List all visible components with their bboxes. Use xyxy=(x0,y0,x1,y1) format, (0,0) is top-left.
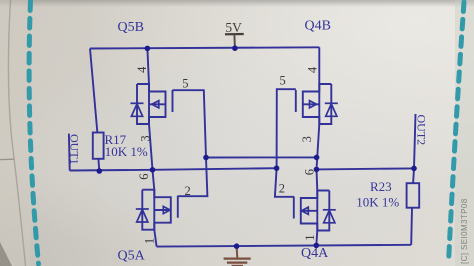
transistor Q4B bulk stub and arrow xyxy=(303,103,320,105)
ground symbol xyxy=(224,246,251,266)
selection dashed marker left xyxy=(29,1,38,264)
svg-text:1: 1 xyxy=(142,238,156,244)
svg-text:5: 5 xyxy=(182,76,188,90)
svg-text:3: 3 xyxy=(300,136,314,142)
wire: Q5B pin3 down to OUT1 wire xyxy=(149,124,153,170)
wire: R23 bottom stub to ground rail xyxy=(410,208,413,245)
transistor Q5B body diode xyxy=(131,102,144,104)
wire: Q5B drain pin 4 from rail xyxy=(147,48,149,84)
wire: bottom ground rail xyxy=(157,245,412,247)
wire: OUT1 net stub xyxy=(68,134,71,171)
transistor Q4B gate bar xyxy=(295,90,297,112)
svg-text:5V: 5V xyxy=(225,20,242,35)
svg-text:Q4B: Q4B xyxy=(305,19,331,34)
svg-text:3: 3 xyxy=(139,135,153,141)
wire: Q5A source pin 1 down xyxy=(154,230,156,247)
svg-text:4: 4 xyxy=(306,66,320,73)
wire: R23 top stub xyxy=(412,168,415,183)
wire: R17 bottom stub xyxy=(97,159,100,171)
bottom-left bezel corner shadow xyxy=(0,242,12,266)
node junction at 147.4,48.4 xyxy=(145,46,151,52)
node junction at 276.6,168.2 xyxy=(274,165,280,171)
transistor Q5A body diode xyxy=(136,208,149,210)
wire: Q4B gate pin 5 down to lower cross node xyxy=(277,89,296,168)
node junction at 236.6,246.2 xyxy=(234,243,240,249)
wire: 5V top power rail xyxy=(90,47,319,48)
transistor Q5B bulk stub and arrow xyxy=(149,103,166,105)
node junction at 316.6,157.4 xyxy=(314,155,320,161)
node junction at 316.5,169.4 xyxy=(314,167,320,173)
node junction at 152.5,169.8 xyxy=(150,167,156,173)
wire: upper cross wire OUT2 node xyxy=(206,156,317,158)
svg-text:5: 5 xyxy=(280,74,286,88)
transistor Q5B gate bar xyxy=(172,90,174,112)
svg-text:R23: R23 xyxy=(370,179,392,194)
wire: Q5A drain pin 6 xyxy=(153,170,155,190)
wire: OUT2 node horizontal to R23 xyxy=(317,168,415,169)
wire: left branch from rail down to R17 xyxy=(90,49,97,133)
wire: Q4A source pin 1 down xyxy=(316,231,317,246)
svg-text:[C] SEI0M3TP08: [C] SEI0M3TP08 xyxy=(460,198,469,264)
svg-text:4: 4 xyxy=(135,66,149,73)
background side tints xyxy=(0,0,30,266)
transistor Q5A body outline xyxy=(142,190,171,230)
svg-text:Q5A: Q5A xyxy=(118,249,146,264)
svg-text:OUT1: OUT1 xyxy=(68,134,82,165)
wire: Q4B pin3 down to Q4A pin6 xyxy=(317,124,320,191)
transistor Q5B body outline xyxy=(137,84,166,124)
resistor R23 xyxy=(407,183,420,208)
svg-text:1: 1 xyxy=(303,234,317,240)
transistor Q4A body outline xyxy=(301,191,330,231)
svg-text:10K 1%: 10K 1% xyxy=(356,194,399,209)
svg-text:Q4A: Q4A xyxy=(301,246,329,261)
selection dashed marker right xyxy=(449,2,465,263)
transistor Q4A bulk stub and arrow xyxy=(301,210,318,212)
wire: Q4B drain pin 4 from rail xyxy=(318,47,320,84)
transistor Q4B body diode xyxy=(325,102,338,104)
resistor R17 xyxy=(93,133,104,159)
power port 5V xyxy=(225,20,244,48)
transistor Q4B body outline xyxy=(303,84,332,124)
node junction at 234.9,48.2 xyxy=(232,45,238,51)
svg-text:6: 6 xyxy=(137,173,151,179)
node junction at 206.0,157.5 xyxy=(203,155,209,161)
node junction at 414.0,168.4 xyxy=(411,166,417,172)
transistor Q5A gate bar xyxy=(177,196,179,218)
svg-text:6: 6 xyxy=(302,169,316,175)
transistor Q4A gate bar xyxy=(293,197,295,219)
wire: Q5B gate pin 5 to cross node xyxy=(173,90,207,157)
svg-text:Q5B: Q5B xyxy=(118,20,144,35)
transistor Q4A body diode xyxy=(323,209,336,211)
wire: Q4A gate pin 2 drop xyxy=(275,168,294,197)
wire: OUT2 net stub xyxy=(414,114,416,168)
wire: lower cross wire OUT1 node xyxy=(70,168,277,170)
transistor Q5A bulk stub and arrow xyxy=(154,209,171,211)
svg-text:10K 1%: 10K 1% xyxy=(105,144,148,159)
wire: Q5A gate pin 2 riser to upper cross node xyxy=(178,158,208,197)
svg-text:2: 2 xyxy=(185,184,191,198)
svg-text:2: 2 xyxy=(279,181,285,195)
node junction at 316.3,245.4 xyxy=(314,243,320,249)
screen bezel thin line left xyxy=(0,158,14,160)
svg-text:OUT2: OUT2 xyxy=(414,115,428,146)
node junction at 99.3,171.0 xyxy=(97,168,103,174)
